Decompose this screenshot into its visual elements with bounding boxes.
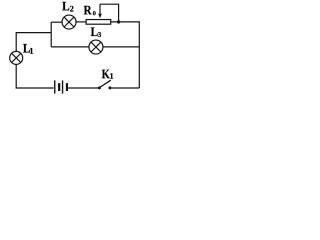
label L2 <box>62 2 69 11</box>
wire <box>16 64 53 88</box>
wire <box>68 87 98 89</box>
label L2 subscript <box>70 6 74 12</box>
wire <box>16 33 51 52</box>
label L1 subscript <box>30 48 33 54</box>
wire <box>100 4 119 22</box>
label R0 <box>84 6 92 15</box>
switch K1 contact dot <box>98 86 101 89</box>
wire <box>51 21 62 23</box>
junction dot <box>117 20 120 23</box>
wire <box>50 22 52 47</box>
battery cell plate short <box>66 83 68 91</box>
wire <box>111 87 139 89</box>
switch K1 contact dot <box>108 86 111 89</box>
lamp L3 <box>89 40 103 54</box>
battery cell plate short <box>58 83 60 91</box>
wire <box>51 46 89 48</box>
slider arrow <box>98 4 102 18</box>
battery cell plate long <box>62 80 64 93</box>
wire <box>111 22 139 88</box>
label K1 subscript <box>110 73 113 79</box>
label L1 <box>23 44 30 53</box>
label L3 <box>91 28 98 37</box>
lamp L2 <box>62 15 76 29</box>
label R0 subscript <box>93 11 96 15</box>
label L3 subscript <box>98 32 101 37</box>
wire <box>76 21 86 23</box>
battery cell plate long <box>54 80 56 93</box>
wire <box>103 46 140 48</box>
label K1 <box>102 70 110 79</box>
lamp L1 <box>10 51 23 64</box>
resistor R0 <box>86 20 111 25</box>
switch K1 blade <box>100 80 111 87</box>
